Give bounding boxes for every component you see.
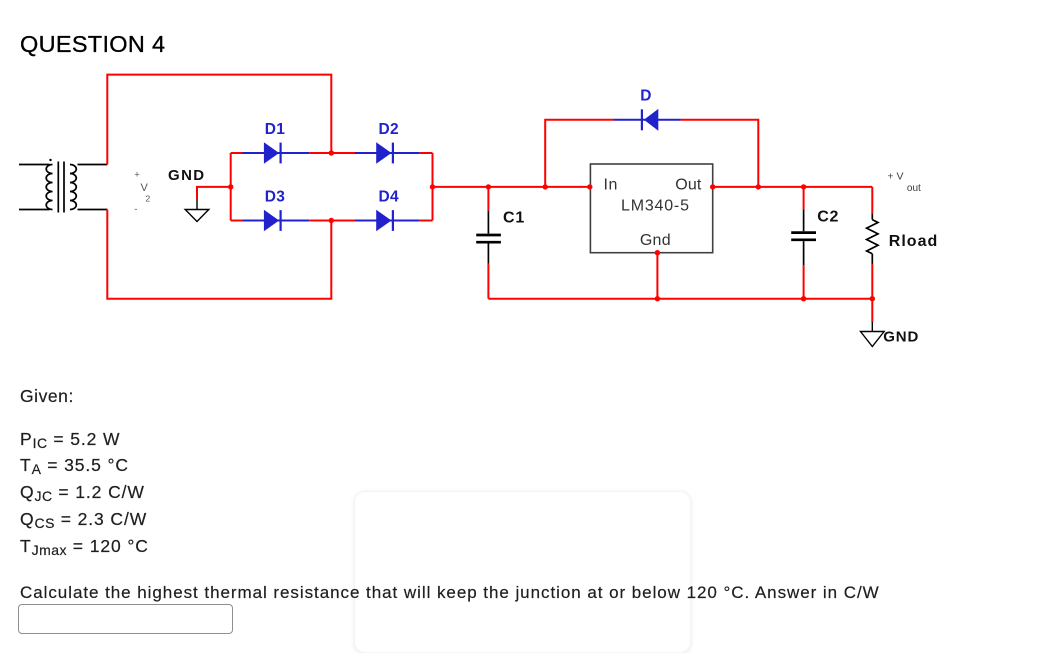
svg-text:Gnd: Gnd [640,232,671,249]
junction: bridge left node [228,184,233,189]
diode D1 [264,142,281,164]
svg-text:D2: D2 [378,121,398,138]
svg-text:GND: GND [883,328,919,345]
wire: bridge top rail blue segments [243,152,420,154]
diode D3 [264,210,281,232]
diode D2 [376,142,393,164]
wire: bypass branch right of diode D down to output (red) [681,120,759,187]
wire: diode D blue segment [614,119,681,121]
junction: C1 top node [486,184,491,189]
svg-text:GND: GND [168,167,206,184]
label +Vout [887,170,921,194]
junction: bridge bottom center [329,218,334,223]
wire: bridge left side (red) [230,153,232,221]
wire: bypass branch up and left of diode D (red) [545,120,613,187]
wire: bridge right side (red) [432,153,434,221]
svg-text:LM340-5: LM340-5 [621,198,690,215]
svg-text:+: + [134,170,140,181]
svg-text:+ V: + V [887,170,903,182]
diode D [642,109,658,131]
svg-text:In: In [604,176,619,193]
capacitor C2 [791,187,816,299]
wire: Rload bottom to output ground (red) [871,299,873,322]
junction: Rload bottom node [870,296,875,301]
label V2 source [134,170,150,216]
ground symbol input [185,200,209,222]
svg-text:2: 2 [146,194,151,204]
svg-text:Rload: Rload [889,233,938,250]
junction: bypass branch node [543,184,548,189]
wire: bridge top rail red segments [231,152,433,154]
wire: regulator Out to load (red) [713,186,873,188]
svg-text:D: D [640,88,651,105]
junction: C2 top node [801,184,806,189]
regulator U1 LM340-5 [590,164,712,253]
wire: bridge bottom rail blue segments [243,220,420,222]
wire: GND spur to bridge left node (red) [197,187,231,200]
svg-text:C2: C2 [817,209,839,226]
wire: bridge bottom rail red segments [231,220,433,222]
svg-text:out: out [907,183,921,194]
diode D4 [376,210,393,232]
junction: In pin node [587,184,592,189]
junction: Gnd rail node [655,296,660,301]
resistor Rload [867,187,878,299]
svg-text:C1: C1 [503,210,525,227]
junction: bridge top center [329,150,334,155]
junction: Gnd pin node [655,250,660,255]
ground symbol output [861,322,885,347]
wire: bridge output to regulator In (red) [433,186,590,188]
capacitor C1 [476,187,501,299]
svg-text:V: V [141,182,149,194]
svg-text:D4: D4 [378,189,398,206]
transformer T1 [19,159,107,213]
wire: transformer secondary bottom to bridge bottom (red) [107,210,331,299]
svg-text:D1: D1 [265,121,285,138]
wire: regulator Gnd pin down (red) [656,253,658,299]
wire: transformer secondary top to bridge top (red) [107,75,331,165]
svg-text:D3: D3 [265,189,285,206]
svg-text:Out: Out [675,176,702,193]
junction: bridge right node [430,184,435,189]
junction: Out pin node [710,184,715,189]
svg-text:-: - [134,204,137,215]
junction: bypass return node [756,184,761,189]
wire: ground rail C1 to Rload (red) [488,298,872,300]
junction: C2 bottom node [801,296,806,301]
